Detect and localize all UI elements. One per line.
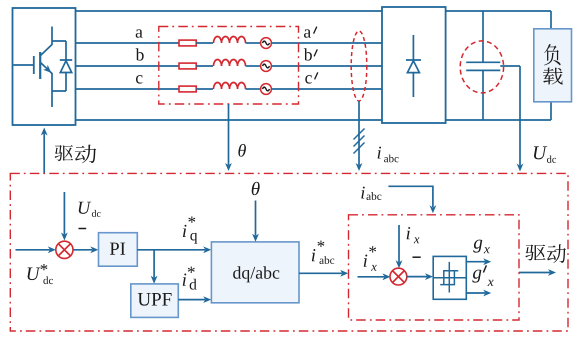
capacitor C1 top lead: [482, 11, 484, 62]
dq/abc transform box: [211, 242, 299, 303]
wire: theta measurement stem with arrow: [228, 104, 230, 165]
wire: inductor to AC source y=66: [246, 65, 261, 67]
three-phase slash marks: [354, 129, 365, 140]
wire: AC source to rectifier y=43: [271, 42, 382, 44]
wire: U*_dc reference into S1: [16, 249, 50, 251]
wire: resistor to inductor y=43: [196, 42, 213, 44]
outer control box (red dash-dot): [10, 173, 568, 331]
rectifier diode D2: [406, 35, 421, 97]
hysteresis symbol: [433, 277, 466, 279]
IGBT Q1 gate lead: [13, 64, 33, 66]
label a': [304, 29, 311, 37]
UPF box: [131, 284, 179, 318]
wire: inductor to AC source y=43: [246, 42, 261, 44]
label 载 (load): [543, 68, 563, 85]
wire: drive signal arrow into inverter: [43, 134, 45, 174]
label 驱动 (drive, upper): [55, 145, 74, 161]
wire: phase line from inverter at y=66: [76, 65, 180, 67]
wire: resistor to inductor y=89: [196, 88, 213, 90]
current transformer ellipse (red dashed): [351, 31, 367, 101]
resistor (red) on phase y=43: [179, 40, 196, 46]
wire: load top stem: [550, 11, 552, 29]
label i_x: [407, 227, 411, 239]
red dash-dot box around RLC components: [159, 27, 299, 105]
load box (fuzai): [534, 29, 572, 102]
capacitor C1 plates: [466, 61, 500, 63]
label g_x: [473, 240, 482, 253]
label 驱动 (drive, lower): [525, 245, 545, 261]
wire: g_x output: [466, 261, 485, 263]
label c: [136, 75, 143, 83]
inverter box U1: [13, 8, 76, 125]
AC source symbol on phase y=89: [261, 84, 272, 95]
wire: UPF output to dq/abc: [178, 299, 205, 301]
label 负 (load): [544, 44, 561, 65]
minus sign at S2: [413, 256, 421, 258]
label c': [305, 75, 312, 83]
IGBT Q1 emitter with arrow: [41, 63, 53, 108]
IGBT Q1 body bar: [39, 52, 41, 79]
wire: AC source to rectifier y=89: [271, 88, 382, 90]
wire: S1 to PI: [73, 249, 92, 251]
wire: phase line from inverter at y=89: [76, 88, 180, 90]
capacitor C1 bottom lead: [482, 70, 484, 120]
wire: branch down to UPF: [153, 250, 155, 278]
wire: i*_abc output to inner box: [299, 272, 342, 274]
anti-parallel diode D1: [52, 41, 72, 91]
AC source symbol on phase y=66: [261, 61, 272, 72]
wire: bottom DC bus (inverter to rectifier): [76, 119, 383, 121]
wire: load bottom stem: [550, 102, 552, 120]
wire: S2 to hysteresis comparator: [407, 276, 427, 278]
label U_dc (upper): [534, 146, 547, 159]
label theta (inner): [252, 182, 260, 195]
inductor (red) on phase y=89: [214, 83, 246, 89]
PI controller box: [99, 233, 138, 267]
wire: resistor to inductor y=66: [196, 65, 213, 67]
label dq/abc: [233, 266, 241, 279]
resistor (red) on phase y=89: [179, 86, 196, 92]
label g'_x: [472, 270, 481, 283]
label U_dc (inner): [79, 202, 92, 214]
label i_abc (inner): [361, 187, 364, 199]
label PI: [110, 243, 119, 255]
label i*_abc: [312, 249, 316, 261]
label b: [136, 48, 144, 60]
wire: g'_x output: [466, 292, 485, 294]
wire: drive output arrow: [519, 272, 550, 274]
label U*_dc: [27, 268, 40, 281]
AC source symbol on phase y=43: [261, 38, 272, 49]
rectifier box U2: [382, 7, 446, 123]
label b': [304, 48, 312, 60]
inductor (red) on phase y=66: [214, 60, 246, 66]
label i_abc (upper): [378, 147, 381, 159]
summing junction S1: [56, 241, 73, 258]
IGBT Q1 gate bar: [33, 56, 35, 74]
summing junction S2: [390, 268, 407, 285]
wire: theta into dq/abc: [255, 201, 257, 236]
IGBT Q1 collector: [41, 27, 53, 56]
wire: i_abc measurement stem with arrow: [358, 101, 360, 165]
wire: top DC bus (rectifier to load): [446, 10, 551, 12]
wire: PI output to dq/abc: [137, 249, 205, 251]
wire: U_dc down to summer S1: [63, 192, 65, 235]
label a: [136, 29, 143, 37]
hysteresis comparator box: [433, 256, 466, 299]
wire: inductor to AC source y=89: [246, 88, 261, 90]
wire: AC source to rectifier y=66: [271, 65, 382, 67]
wire: i_abc feed into inner box: [388, 186, 433, 207]
label theta (upper): [238, 144, 246, 157]
inductor (red) on phase y=43: [214, 37, 246, 43]
wire: i_x down into S2: [398, 225, 400, 262]
wire: U_dc measurement tap with arrow: [500, 65, 520, 67]
label i*_x: [364, 255, 368, 267]
wire: i*_x into summer S2: [358, 276, 385, 278]
red dashed ellipse around capacitor: [460, 41, 503, 93]
inner control box (red dash-dot): [349, 215, 520, 320]
label i_q*: [183, 225, 187, 237]
wire: top DC bus (inverter to rectifier): [76, 10, 383, 12]
label UPF: [138, 293, 151, 306]
minus sign at S1: [79, 228, 87, 230]
resistor (red) on phase y=66: [179, 63, 196, 69]
wire: phase line from inverter at y=43: [76, 42, 180, 44]
wire: bottom DC bus (rectifier to load): [446, 119, 551, 121]
label i_d*: [183, 273, 187, 285]
